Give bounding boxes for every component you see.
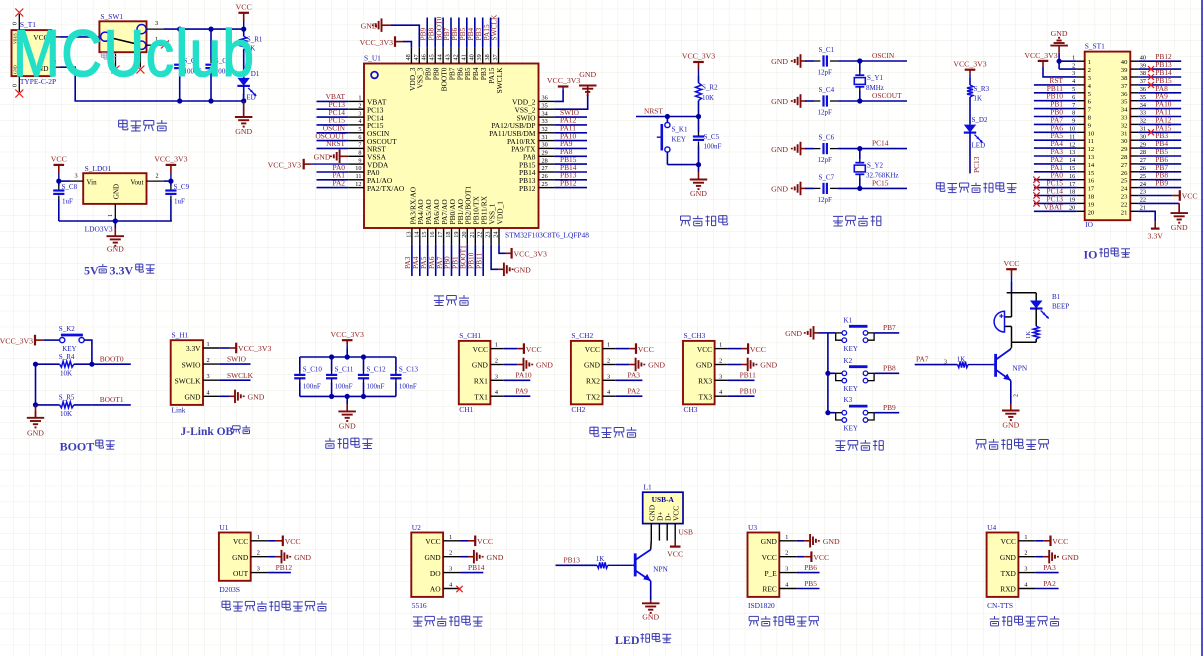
svg-text:3: 3 [944,359,947,365]
module U1 D203S [219,523,268,594]
net label PB14 (U2) [468,563,485,572]
header S_CH2 serial [571,331,616,414]
ground GND (U1 VSSA) [314,150,349,164]
svg-text:PA10: PA10 [515,371,531,380]
svg-text:SWCLK: SWCLK [490,14,499,41]
net label OSCIN [323,124,346,133]
net label PA7 (alarm) [916,354,929,363]
title 电源电路 [119,120,168,132]
svg-text:VCC_3V3: VCC_3V3 [154,155,187,164]
svg-text:3: 3 [607,373,610,380]
svg-text:GND: GND [1000,553,1017,562]
net label PB12 (U1) [276,563,293,572]
svg-text:VCC: VCC [1001,537,1016,546]
svg-text:3.3V: 3.3V [186,344,201,353]
net label PA7 (bottom) [435,256,444,269]
title 按键电路 [835,440,883,451]
wire emitter to GND (alarm) [1011,381,1020,404]
net label PB12 (ST1) [1155,52,1172,61]
svg-text:VCC: VCC [526,345,542,354]
wire U1 pin37 [498,18,500,48]
svg-text:PB12: PB12 [560,178,577,187]
svg-text:3: 3 [257,566,260,573]
svg-text:REC: REC [762,585,776,594]
svg-text:S_C4: S_C4 [819,86,835,94]
svg-text:GND: GND [184,393,201,402]
svg-text:1: 1 [358,95,361,102]
wire U1 pin25 [554,187,587,189]
wire PB9 (key) [874,412,899,414]
net label PB6 (ST1) [1155,155,1168,164]
svg-text:Vin: Vin [87,178,98,186]
net label SWIO [560,108,580,117]
net label PC13 (indicator) [972,156,981,173]
power 3.3V (ST1 pin21) [1148,221,1164,240]
svg-text:13: 13 [1069,149,1075,156]
wire ST1 pin36 [1138,92,1181,94]
svg-text:16: 16 [1088,178,1095,185]
net label BOOT1 [100,395,124,404]
title 录音语音模块 [749,616,818,627]
title 声光报警电路 [976,439,1048,450]
svg-text:VBAT: VBAT [1044,202,1064,211]
net label PB10 (CH3) [740,387,757,396]
capacitor C10 100nF [294,357,322,396]
svg-text:24: 24 [1121,186,1128,193]
svg-text:S_R2: S_R2 [702,84,718,92]
svg-text:VCC: VCC [762,553,777,562]
svg-text:1: 1 [449,534,452,541]
svg-text:GND: GND [771,97,788,106]
ground GND (BOOT) [27,405,45,438]
svg-text:35: 35 [542,102,548,109]
ground GND (H1) [219,390,264,404]
net label PB5 (U3) [804,579,817,588]
svg-text:13: 13 [405,232,412,238]
svg-text:2: 2 [1088,67,1091,74]
svg-text:23: 23 [1121,194,1128,201]
svg-text:PB11: PB11 [740,371,756,380]
wire U1 pin7 [317,147,349,149]
svg-text:11: 11 [1069,133,1075,140]
svg-text:44: 44 [437,53,444,60]
connector T1 TYPE-C-2P [12,14,60,92]
svg-text:K2: K2 [844,357,853,365]
svg-text:GND: GND [771,57,788,66]
svg-text:41: 41 [460,54,467,60]
svg-text:27: 27 [1140,157,1146,164]
net label PB13 (ST1) [1155,60,1172,69]
junction NRST/K1 [665,114,670,119]
key K3 [828,396,874,432]
svg-text:PB6: PB6 [804,563,817,572]
svg-text:1: 1 [1024,534,1027,541]
net label PA7 (ST1) [1051,115,1064,124]
wire H1.1 to VCC_3V3 [219,347,229,349]
wire U1 pin44 [442,18,444,48]
header H1 J-Link [171,331,220,415]
svg-text:GND: GND [584,361,601,370]
svg-text:5V: 5V [84,264,99,278]
svg-text:2: 2 [719,358,722,365]
title J-Link OB接口 [181,425,251,438]
net label PA1 (ST1) [1051,163,1064,172]
wire VCC node to LDO Vin [59,180,71,182]
wire PB14 (U2) [461,572,484,574]
net label VBAT (ST1) [1044,202,1064,211]
svg-text:17: 17 [1088,186,1095,193]
svg-text:U2: U2 [412,523,421,532]
ground GND (U4 pin2) [1036,550,1079,564]
capacitor C13 100nF [390,357,418,396]
svg-text:GND: GND [690,189,707,198]
svg-text:S_CH1: S_CH1 [459,331,481,340]
no-ERC marker SW1 pin1 [161,40,169,48]
net label PA9 [560,139,573,148]
power VCC_3V3 (LDO out) [154,155,187,182]
svg-text:LDO3V3: LDO3V3 [85,225,113,234]
wire U1 pin22 [482,245,484,276]
net label PB13 [560,171,577,180]
no-ERC marker PC13 [1033,200,1039,206]
svg-text:18: 18 [445,232,452,238]
wire ST1 pin28 [1138,155,1181,157]
svg-text:15: 15 [1069,165,1075,172]
svg-text:11: 11 [1088,138,1094,145]
svg-text:VCC: VCC [236,3,252,12]
svg-text:1: 1 [785,534,788,541]
net label PA5 (ST1) [1051,131,1064,140]
net label PB14 (ST1) [1155,68,1172,77]
svg-text:16: 16 [1069,173,1075,180]
wire U1 pin34 [554,116,587,118]
wire ST1 pin11 [1034,139,1077,141]
svg-text:1: 1 [107,214,114,217]
svg-text:20: 20 [1088,209,1095,216]
no-ERC marker T1 top [15,9,23,17]
svg-text:21: 21 [1121,209,1128,216]
svg-text:42: 42 [452,54,459,60]
svg-text:S_R3: S_R3 [974,85,990,93]
net label PB4 (ST1) [1155,139,1168,148]
svg-text:11: 11 [355,173,361,180]
net label VBAT [326,92,346,101]
wire ST1 pin17 [1034,187,1077,189]
svg-text:12: 12 [1069,141,1075,148]
svg-text:S_Y1: S_Y1 [867,74,883,82]
wire U1 pin6 [317,140,349,142]
svg-text:RXD: RXD [1000,585,1016,594]
wire LDO bottom rail [59,220,172,222]
svg-text:12pF: 12pF [818,156,833,164]
wire reset bottom [667,164,698,166]
net label PC14 [329,108,346,117]
key K1 [828,316,874,352]
net label PA9 (ST1) [1155,92,1168,101]
svg-text:19: 19 [453,232,460,238]
svg-text:NPN: NPN [653,565,668,574]
net label PA5 (bottom) [419,256,428,269]
ground GND (crystal S_C1) [771,54,805,68]
ground GND (CH1) [504,358,554,372]
wire TX (CH3) [728,395,755,397]
title 复位电路 [681,215,728,226]
svg-text:S_D2: S_D2 [972,116,988,124]
svg-text:VCC: VCC [1052,537,1068,546]
no-ERC marker SW1 bottom a [112,66,120,74]
svg-text:TX3: TX3 [699,392,713,401]
net label PB9 (key) [883,403,896,412]
capacitor C9 1uF [165,181,189,221]
net label PA4 (ST1) [1051,139,1064,148]
svg-text:CH2: CH2 [571,405,585,414]
svg-text:14: 14 [1069,157,1076,164]
svg-text:K1: K1 [844,316,853,324]
svg-text:24: 24 [493,231,500,238]
svg-text:VCC_3V3: VCC_3V3 [268,160,301,169]
svg-text:2: 2 [1013,394,1019,397]
junction crystal bottom PC15 [857,186,862,191]
svg-text:2: 2 [785,550,788,557]
net label BOOT0 [100,355,124,364]
svg-text:27: 27 [1121,162,1128,169]
svg-text:39: 39 [1140,62,1146,69]
svg-text:S_C9: S_C9 [174,183,190,191]
ground GND (crystal S_C4) [771,94,805,108]
capacitor C11 100nF [326,357,354,396]
svg-text:PB13: PB13 [564,556,581,565]
svg-text:26: 26 [542,173,548,180]
net label PA2 (ST1) [1051,155,1064,164]
wire PB12 (U1) [268,572,291,574]
svg-text:1: 1 [607,342,610,349]
svg-text:VCC_3V3: VCC_3V3 [0,336,33,345]
svg-text:31: 31 [1121,130,1128,137]
module U2 5516 [411,523,460,610]
svg-text:18: 18 [1069,189,1075,196]
ground GND (crystal S_C7) [771,182,805,196]
svg-text:S_C5: S_C5 [704,133,720,141]
wire ST1 pin12 [1034,147,1077,149]
svg-text:MCUclub: MCUclub [13,17,256,90]
wire U1 pin5 [317,132,349,134]
wire U1 pin46 [426,18,428,48]
svg-text:2: 2 [1072,62,1075,69]
svg-text:5: 5 [1072,86,1075,93]
power VCC_3V3 (ST1 pin3) [1024,51,1057,67]
regulator LDO1 LDO3V3 [71,164,164,234]
wire PB6 (U3) [797,572,820,574]
resistor R5 10K [36,394,92,419]
svg-text:29: 29 [542,150,548,157]
power VCC_3V3 (indicator) [953,59,986,78]
svg-text:VCC: VCC [473,345,488,354]
key K2 [828,357,874,393]
svg-text:7: 7 [1072,102,1075,109]
capacitor S_C6 12pF [805,134,860,165]
svg-text:PA2: PA2 [1043,579,1056,588]
power VCC (ST1 pin23) [1172,190,1197,201]
ground GND (crystal S_C6) [771,142,805,156]
svg-text:Vout: Vout [130,178,143,186]
wire TX (CH1) [504,395,531,397]
svg-text:32: 32 [1121,122,1128,129]
wire U1 pin30 [554,147,587,149]
junction NRST/R2/C5 [696,114,701,119]
svg-text:10K: 10K [60,370,72,378]
svg-text:10: 10 [1069,126,1075,133]
capacitor C2 100nF [174,29,201,101]
wire U1 pin40 [474,18,476,48]
svg-text:17: 17 [437,232,444,238]
svg-text:GND: GND [248,393,265,402]
wire LDO Vout to C9 [164,180,171,182]
svg-text:VCC_3V3: VCC_3V3 [953,59,986,68]
svg-text:VCC: VCC [813,553,829,562]
power VCC_3V3 (H1) [229,343,271,354]
wire button gnd rail [827,333,829,413]
wire ST1 pin29 [1138,147,1181,149]
wire SW1.3 to VCC rail [163,28,243,30]
svg-text:100nF: 100nF [399,383,417,391]
transistor NPN (alarm) [993,348,1028,381]
net label PB4 (top) [466,27,475,40]
wire crystal row PC14 [860,148,907,150]
net label PB9 (top) [418,27,427,40]
svg-text:22: 22 [1140,197,1146,204]
power VCC_3V3 (U1 VDD_3) [360,36,412,48]
wire ST1 pin9 [1034,123,1077,125]
resistor R1 1K [241,29,263,78]
junction filter top mid [345,354,350,359]
svg-text:BOOT0: BOOT0 [100,355,124,364]
svg-text:GND: GND [232,553,249,562]
svg-text:1K: 1K [957,355,966,363]
wire ST1 pin27 [1138,163,1181,165]
net label PB0 (bottom) [443,256,452,269]
svg-text:36: 36 [1121,91,1128,98]
svg-text:16: 16 [429,232,436,238]
svg-text:6: 6 [1072,94,1075,101]
svg-text:3: 3 [449,566,452,573]
no-ERC marker SW1 bottom b [136,66,144,74]
svg-text:1K: 1K [596,555,605,563]
connector L1 USB-A [643,483,683,541]
crystal S_Y2 32.768KHz [854,149,898,189]
wire U1 pin2 [317,108,349,110]
svg-text:30: 30 [542,142,548,149]
key K1 (reset) [657,117,688,165]
svg-text:IO: IO [1085,220,1093,229]
svg-text:PA7: PA7 [916,354,929,363]
svg-text:31: 31 [1140,126,1146,133]
svg-text:S_C11: S_C11 [335,366,354,374]
switch SW1 [99,12,163,68]
net label PB15 [560,155,577,164]
svg-text:34: 34 [1140,102,1147,109]
svg-text:GND: GND [27,429,44,438]
junction ST1 pin1 GND [1057,59,1062,64]
svg-text:NRST: NRST [326,139,345,148]
wire ST1 pin14 [1034,163,1077,165]
no-ERC marker PB14 (ST1) [1148,74,1154,80]
svg-text:15: 15 [1088,170,1095,177]
junction crystal bottom OSCOUT [857,98,862,103]
wire U1 pin32 [554,132,587,134]
svg-text:5516: 5516 [412,601,427,610]
wire ST1 pin25 [1138,179,1181,181]
svg-text:BEEP: BEEP [1052,303,1069,311]
key K2 (BOOT) [59,325,84,353]
net label PC15 [872,178,889,187]
svg-text:1: 1 [207,341,210,348]
svg-text:3: 3 [1024,566,1027,573]
wire ST1 pin39 [1138,68,1181,70]
svg-text:KEY: KEY [62,345,76,353]
svg-text:12pF: 12pF [818,109,833,117]
capacitor C8 1uF [53,181,77,221]
junction R4 left [33,362,38,367]
svg-text:10: 10 [1088,130,1095,137]
svg-text:U4: U4 [987,523,996,532]
wire U1 pin45 [434,18,436,48]
svg-text:2: 2 [207,357,210,364]
svg-text:5: 5 [358,126,361,133]
ground GND (power circuit) [235,101,253,136]
wire PA2 (U4) [1036,588,1059,590]
junction Vout/C9 node [168,179,173,184]
wire U1 pin20 [466,245,468,276]
ground GND (U1 VSS_2) [579,70,597,96]
resistor R4 10K [36,353,92,378]
net label PB6 (U3) [804,563,817,572]
net label PA3 (ST1) [1051,147,1064,156]
net label PB7 (key) [883,323,896,332]
svg-text:U1: U1 [219,523,228,532]
svg-text:2: 2 [358,102,361,109]
svg-text:S_U1: S_U1 [364,54,381,63]
wire ST1 pin18 [1034,195,1077,197]
svg-text:S_C13: S_C13 [399,366,419,374]
net label PB7 (top) [442,27,451,40]
IC U1 STM32F103C8T6_LQFP48 [348,48,589,245]
svg-text:1: 1 [1088,59,1091,66]
svg-text:3.3V: 3.3V [1148,232,1164,241]
svg-text:S_R4: S_R4 [59,353,75,361]
svg-text:GND: GND [1002,421,1019,430]
title 光照检测模块 [413,616,483,627]
net label PB12 [560,178,577,187]
svg-text:38: 38 [1121,75,1128,82]
wire ST1 pin10 [1034,131,1077,133]
net label PB1 (bottom) [451,256,460,269]
wire U1 pin39 [482,18,484,48]
svg-text:PB14: PB14 [468,563,485,572]
svg-text:17: 17 [1069,181,1075,188]
wire NRST [636,116,699,118]
svg-text:GND: GND [472,361,489,370]
wire U1 pin29 [554,155,587,157]
svg-text:PB12: PB12 [276,563,293,572]
svg-text:GND: GND [579,70,596,79]
net label PA1 [333,171,346,180]
svg-text:1K: 1K [1025,331,1032,339]
wire U1 pin15 [427,245,429,276]
junction at C2 top [177,27,182,32]
svg-text:3: 3 [207,373,210,380]
wire ST1 pin35 [1138,100,1181,102]
svg-text:RX3: RX3 [698,377,712,386]
